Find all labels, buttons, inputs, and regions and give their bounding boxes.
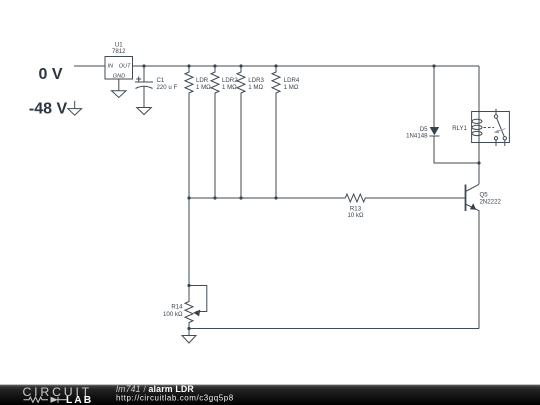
svg-text:LDR2: LDR2	[222, 77, 238, 84]
svg-text:-48 V: -48 V	[29, 101, 68, 118]
svg-text:1N4148: 1N4148	[406, 133, 428, 140]
svg-text:RLY1: RLY1	[452, 125, 467, 132]
svg-text:LAB: LAB	[66, 395, 93, 405]
svg-text:100 kΩ: 100 kΩ	[163, 311, 183, 318]
svg-text:LDR: LDR	[196, 77, 209, 84]
svg-text:1 MΩ: 1 MΩ	[284, 84, 299, 91]
svg-text:http://circuitlab.com/c3gq5p8: http://circuitlab.com/c3gq5p8	[116, 394, 234, 403]
svg-text:10 kΩ: 10 kΩ	[347, 212, 364, 219]
svg-text:0 V: 0 V	[38, 66, 62, 83]
svg-text:1 MΩ: 1 MΩ	[222, 84, 237, 91]
svg-text:C1: C1	[157, 77, 165, 84]
svg-text:IN: IN	[108, 64, 115, 70]
svg-text:220 u F: 220 u F	[157, 84, 178, 91]
svg-text:LDR4: LDR4	[284, 77, 300, 84]
svg-text:lm741 / alarm LDR: lm741 / alarm LDR	[116, 384, 194, 394]
svg-text:GND: GND	[113, 74, 125, 80]
svg-text:1 MΩ: 1 MΩ	[196, 84, 211, 91]
svg-text:OUT: OUT	[119, 64, 131, 70]
svg-text:7812: 7812	[112, 48, 126, 55]
svg-text:LDR3: LDR3	[248, 77, 264, 84]
svg-text:1 MΩ: 1 MΩ	[248, 84, 263, 91]
svg-text:R14: R14	[171, 304, 183, 311]
svg-text:2N2222: 2N2222	[480, 198, 502, 205]
